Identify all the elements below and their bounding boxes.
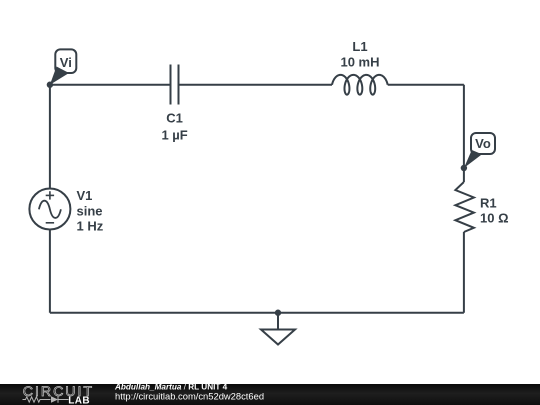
svg-text:V1: V1 xyxy=(77,188,93,203)
logo diode triangle xyxy=(51,396,58,402)
logo schematic squiggle: resistor xyxy=(23,396,69,402)
wire right rail upper xyxy=(463,85,465,182)
wire left rail lower xyxy=(49,230,51,313)
svg-text:LAB: LAB xyxy=(68,396,90,405)
svg-text:R1: R1 xyxy=(480,196,497,211)
resistor R1 xyxy=(455,182,474,232)
node dot ground xyxy=(275,310,281,316)
capacitor C1 xyxy=(171,65,179,105)
svg-text:1 Hz: 1 Hz xyxy=(77,219,104,234)
svg-text:http://circuitlab.com/cn52dw28: http://circuitlab.com/cn52dw28ct6ed xyxy=(115,391,264,402)
svg-text:1 µF: 1 µF xyxy=(161,128,187,143)
ground xyxy=(261,313,295,345)
wire cap-to-inductor xyxy=(180,84,333,86)
node dot Vo xyxy=(461,165,467,171)
wire inductor-to-corner xyxy=(388,84,464,86)
svg-text:10 mH: 10 mH xyxy=(340,55,379,70)
svg-text:sine: sine xyxy=(77,203,103,218)
V1 sine symbol xyxy=(39,201,61,218)
logo wire to LAB xyxy=(58,399,69,401)
svg-text:C1: C1 xyxy=(166,111,183,126)
logo diode bar xyxy=(57,396,59,402)
wire bottom rail xyxy=(50,312,464,314)
svg-text:Vi: Vi xyxy=(60,55,72,70)
inductor L1 xyxy=(332,75,388,95)
pointer Vi xyxy=(50,67,69,85)
wire left rail upper xyxy=(49,85,51,189)
node label box Vo xyxy=(471,133,495,154)
V1 minus sign xyxy=(46,222,54,224)
node label box Vi xyxy=(55,49,76,73)
wire top-left segment xyxy=(50,84,170,86)
svg-text:L1: L1 xyxy=(352,39,367,54)
svg-text:10 Ω: 10 Ω xyxy=(480,211,509,226)
svg-text:Vo: Vo xyxy=(475,136,491,151)
wire right rail lower xyxy=(463,232,465,313)
node dot Vi xyxy=(47,82,53,88)
pointer Vo xyxy=(464,150,482,168)
V1 plus sign xyxy=(39,191,61,223)
voltage source V1 circle xyxy=(29,189,70,230)
